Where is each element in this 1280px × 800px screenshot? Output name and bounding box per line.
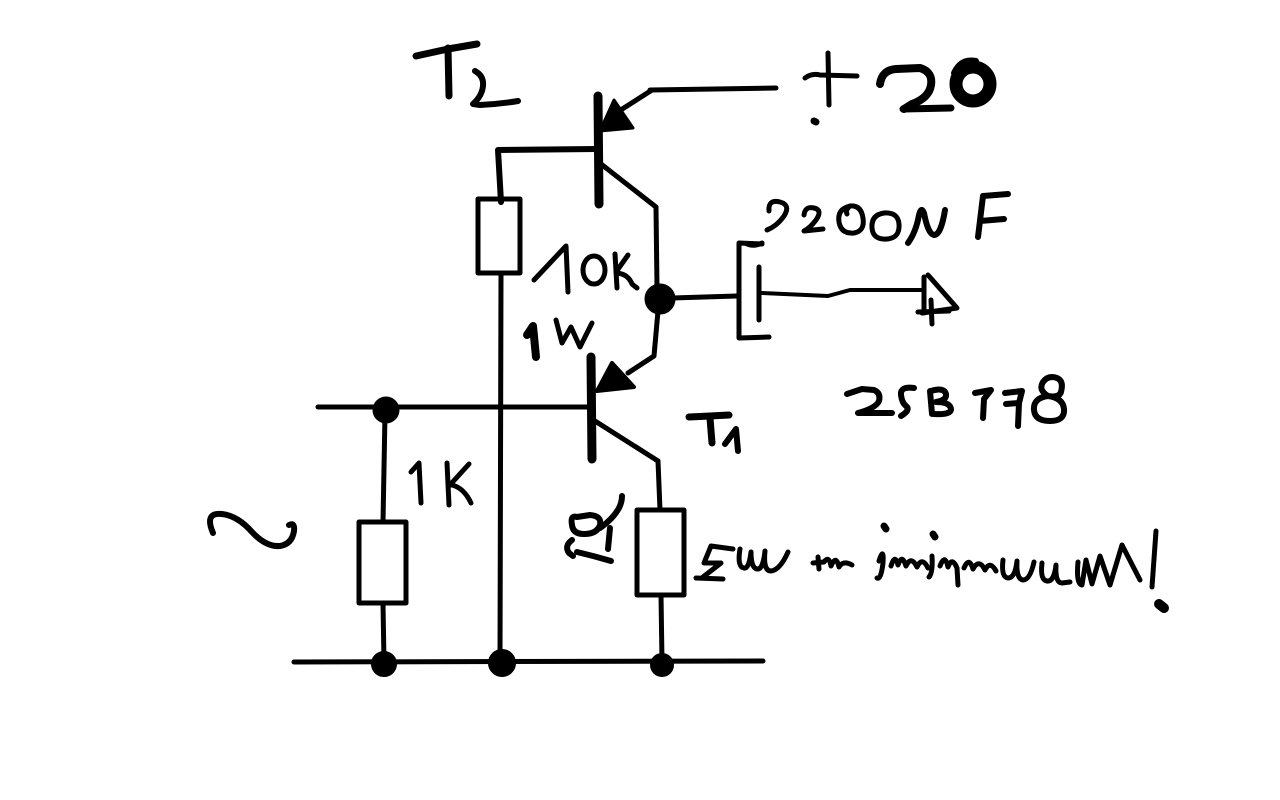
wire capacitor output bbox=[762, 290, 922, 296]
node ground junction 1 bbox=[373, 653, 395, 675]
node output junction bbox=[647, 286, 673, 312]
label 2R rotated bbox=[567, 496, 622, 561]
wire junction down to 1K bbox=[383, 414, 385, 522]
resistor 10k 1W bbox=[478, 199, 520, 273]
label 1K bbox=[411, 463, 471, 505]
transistor T1 bbox=[591, 357, 658, 461]
wire T2 collector drop bbox=[656, 207, 657, 288]
label 1W bbox=[527, 320, 592, 357]
wire ground bus bbox=[294, 661, 763, 662]
wire center vertical (10k to ground) bbox=[500, 273, 501, 661]
wire supply top bbox=[650, 88, 776, 90]
wire mid horizontal (base bus) bbox=[318, 405, 588, 410]
capacitor 2200nF bbox=[739, 243, 769, 338]
label 5W minimum! bbox=[696, 526, 1164, 608]
resistor 1K bbox=[359, 522, 406, 603]
resistor 2R 5W bbox=[637, 510, 684, 595]
AC source squiggle bbox=[210, 514, 294, 546]
label +20 bbox=[805, 53, 990, 122]
node ground junction 3 bbox=[652, 655, 672, 675]
transistor T2 bbox=[598, 90, 656, 207]
label 2SB 778 bbox=[847, 377, 1064, 426]
wire T2 base bbox=[498, 149, 597, 202]
transistor T1 collector drop bbox=[658, 461, 660, 510]
wire junction to T1 emitter bbox=[628, 311, 658, 373]
label T1 bbox=[689, 415, 738, 451]
label 10k bbox=[534, 246, 637, 292]
node ground junction 2 bbox=[490, 651, 514, 675]
wire 1K to ground bbox=[383, 603, 384, 662]
label T2 bbox=[416, 44, 518, 105]
label 2200NF bbox=[747, 194, 1008, 245]
output arrow bbox=[918, 275, 957, 324]
wire capacitor input bbox=[672, 296, 737, 298]
node mid-wire junction bbox=[375, 399, 397, 421]
resistor 2R to ground bbox=[661, 595, 662, 661]
